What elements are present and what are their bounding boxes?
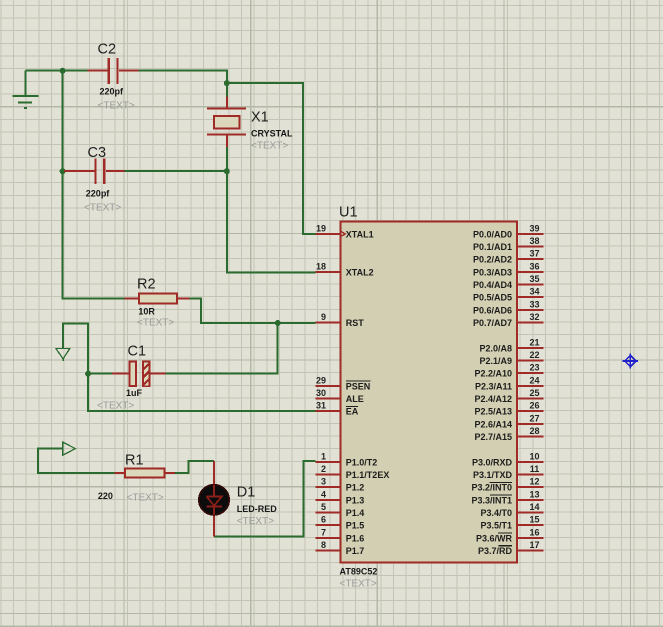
svg-text:220pf: 220pf [86,188,111,198]
svg-text:P3.5/T1: P3.5/T1 [480,521,512,531]
svg-text:P1.5: P1.5 [346,521,365,531]
svg-text:<TEXT>: <TEXT> [97,400,134,411]
svg-text:27: 27 [529,413,539,423]
svg-text:<TEXT>: <TEXT> [98,101,135,112]
clock chevron pin 19 [341,231,346,236]
pin 4 P1.3 (left) [315,489,364,505]
pin 3 P1.2 (left) [315,477,364,493]
pin 2 P1.1/T2EX (left) [315,464,389,480]
svg-text:34: 34 [529,287,539,297]
pin 34 P0.5/AD5 (right) [473,287,544,303]
origin marker [623,353,638,368]
pin 31 EA (left) [315,401,358,417]
svg-text:11: 11 [530,464,540,474]
terminal arrow right [63,442,76,455]
pin 8 P1.7 (left) [315,540,364,556]
svg-text:P3.3/INT1: P3.3/INT1 [471,495,512,505]
svg-text:35: 35 [529,274,539,284]
svg-text:RST: RST [346,318,365,328]
svg-text:P1.3: P1.3 [346,495,365,505]
pin 28 P2.7/A15 (right) [474,426,543,442]
svg-text:<TEXT>: <TEXT> [84,203,121,214]
node junction [60,168,66,174]
svg-text:P3.2/INT0: P3.2/INT0 [471,483,512,493]
svg-text:9: 9 [321,312,326,322]
wire [214,461,316,536]
svg-text:LED-RED: LED-RED [237,504,277,514]
svg-text:P3.0/RXD: P3.0/RXD [472,457,513,467]
svg-text:31: 31 [316,401,326,411]
svg-text:P3.7/RD: P3.7/RD [478,546,513,556]
svg-text:ALE: ALE [346,394,364,404]
node junction [224,80,230,86]
svg-text:<TEXT>: <TEXT> [340,578,377,589]
pin 10 P3.0/RXD (right) [472,451,544,467]
svg-text:P1.2: P1.2 [346,483,365,493]
pin 17 P3.7/RD (right) [478,540,544,556]
pin 38 P0.1/AD1 (right) [473,236,544,252]
svg-text:1uF: 1uF [126,388,143,398]
svg-text:P2.3/A11: P2.3/A11 [475,381,512,391]
pin 7 P1.6 (left) [315,527,364,543]
svg-text:8: 8 [321,540,326,550]
svg-text:<TEXT>: <TEXT> [137,318,174,329]
svg-text:21: 21 [529,337,539,347]
IC U1 AT89C52 body [341,221,517,562]
svg-text:30: 30 [316,388,326,398]
svg-text:6: 6 [321,515,326,525]
svg-text:P0.6/AD6: P0.6/AD6 [473,305,512,315]
svg-text:P0.0/AD0: P0.0/AD0 [473,229,512,239]
svg-text:P0.7/AD7: P0.7/AD7 [473,318,512,328]
pin 15 P3.5/T1 (right) [480,515,543,531]
svg-text:220: 220 [98,491,113,501]
pin 27 P2.6/A14 (right) [474,413,543,429]
svg-text:P1.6: P1.6 [346,533,365,543]
pin 16 P3.6/WR (right) [476,527,544,543]
svg-text:<TEXT>: <TEXT> [251,140,288,151]
resistor R2 [125,294,190,304]
pin 12 P3.2/INT0 (right) [471,477,543,493]
wire [227,171,316,272]
pin 13 P3.3/INT1 (right) [471,489,543,505]
svg-text:5: 5 [321,502,326,512]
wire [88,373,112,375]
diode D1 LED-RED [199,461,229,536]
svg-text:23: 23 [529,363,539,373]
svg-text:P0.2/AD2: P0.2/AD2 [473,255,512,265]
svg-text:36: 36 [529,261,539,271]
svg-text:<TEXT>: <TEXT> [237,516,274,527]
svg-text:10: 10 [529,451,539,461]
svg-text:10R: 10R [138,306,155,316]
svg-text:<TEXT>: <TEXT> [127,492,164,503]
pin 37 P0.2/AD2 (right) [473,249,544,265]
svg-text:P2.5/A13: P2.5/A13 [474,407,512,417]
svg-text:25: 25 [529,388,539,398]
svg-text:32: 32 [529,312,539,322]
svg-text:26: 26 [529,401,539,411]
svg-text:15: 15 [529,515,539,525]
svg-text:39: 39 [529,223,539,233]
wire [175,461,214,473]
node junction [224,168,230,174]
svg-text:29: 29 [316,375,326,385]
wire [88,374,315,411]
svg-text:P3.4/T0: P3.4/T0 [480,508,512,518]
svg-text:R2: R2 [137,277,156,293]
capacitor C3 [64,158,125,184]
svg-text:2: 2 [321,464,326,474]
svg-text:17: 17 [529,540,539,550]
svg-text:P2.6/A14: P2.6/A14 [474,419,512,429]
svg-text:16: 16 [529,527,539,537]
pin 1 P1.0/T2 (left) [315,451,377,467]
pin 24 P2.3/A11 (right) [475,375,544,391]
svg-text:D1: D1 [237,485,256,501]
pin 19 XTAL1 (left) [315,223,373,239]
svg-text:P2.4/A12: P2.4/A12 [474,394,512,404]
svg-text:220pf: 220pf [100,87,125,97]
svg-text:C3: C3 [88,145,107,161]
svg-text:R1: R1 [125,453,144,469]
svg-text:19: 19 [316,223,326,233]
svg-text:XTAL1: XTAL1 [346,229,374,239]
node junction [60,68,66,74]
svg-text:22: 22 [529,350,539,360]
resistor R1 [115,468,175,477]
pin 23 P2.2/A10 (right) [474,363,543,379]
wire [227,83,316,234]
svg-text:C1: C1 [128,344,147,360]
svg-text:P1.4: P1.4 [346,508,365,518]
wire [63,324,88,374]
pin 39 P0.0/AD0 (right) [473,223,544,239]
svg-text:AT89C52: AT89C52 [340,567,378,577]
svg-text:38: 38 [529,236,539,246]
svg-text:P1.1/T2EX: P1.1/T2EX [346,470,390,480]
svg-text:37: 37 [529,249,539,259]
node junction [85,371,91,377]
svg-text:P2.0/A8: P2.0/A8 [479,343,512,353]
pin 35 P0.4/AD4 (right) [473,274,544,290]
svg-text:P0.3/AD3: P0.3/AD3 [473,267,512,277]
svg-text:33: 33 [529,299,539,309]
svg-text:U1: U1 [339,205,358,221]
svg-text:P0.1/AD1: P0.1/AD1 [473,242,512,252]
pin 26 P2.5/A13 (right) [474,401,543,417]
capacitor C1 [112,362,166,387]
svg-text:EA: EA [346,407,359,417]
pin 29 PSEN (left) [315,375,370,391]
svg-text:P2.1/A9: P2.1/A9 [479,356,512,366]
pin 21 P2.0/A8 (right) [479,337,543,353]
pin 25 P2.4/A12 (right) [474,388,543,404]
svg-text:P2.7/A15: P2.7/A15 [474,432,512,442]
svg-text:C2: C2 [98,42,117,58]
wire [38,449,115,473]
svg-text:28: 28 [529,426,539,436]
svg-text:24: 24 [529,375,539,385]
terminal arrow down [56,349,70,362]
svg-text:13: 13 [529,489,539,499]
svg-text:CRYSTAL: CRYSTAL [251,128,293,138]
wire [125,170,227,172]
crystal X1 [207,96,246,147]
wire [139,71,227,97]
capacitor C2 [88,58,139,84]
pin 32 P0.7/AD7 (right) [473,312,544,328]
wire [226,147,228,171]
pin 36 P0.3/AD3 (right) [473,261,544,277]
wire [25,70,87,72]
node junction [275,320,281,326]
pin 14 P3.4/T0 (right) [480,502,543,518]
pin 33 P0.6/AD6 (right) [473,299,544,315]
svg-text:1: 1 [321,451,326,461]
pin 11 P3.1/TXD (right) [473,464,544,480]
wire [63,71,125,299]
wire [190,299,316,323]
svg-text:P0.4/AD4: P0.4/AD4 [473,280,512,290]
svg-text:P3.1/TXD: P3.1/TXD [473,470,513,480]
svg-text:P2.2/A10: P2.2/A10 [474,369,512,379]
svg-text:P3.6/WR: P3.6/WR [476,533,513,543]
pin 6 P1.5 (left) [315,515,364,531]
svg-text:P0.5/AD5: P0.5/AD5 [473,293,512,303]
svg-text:7: 7 [321,527,326,537]
svg-text:PSEN: PSEN [346,381,371,391]
pin 18 XTAL2 (left) [315,261,373,277]
pin 9 RST (left) [315,312,364,328]
svg-text:X1: X1 [251,110,269,126]
svg-text:12: 12 [529,477,539,487]
svg-text:4: 4 [321,489,326,499]
svg-text:P1.0/T2: P1.0/T2 [346,457,378,467]
pin 30 ALE (left) [315,388,363,404]
svg-text:3: 3 [321,477,326,487]
pin 5 P1.4 (left) [315,502,364,518]
ground [13,71,39,109]
svg-text:14: 14 [529,502,539,512]
svg-text:P1.7: P1.7 [346,546,365,556]
wire [166,323,278,374]
pin 22 P2.1/A9 (right) [479,350,543,366]
svg-text:18: 18 [316,261,326,271]
svg-text:XTAL2: XTAL2 [346,267,374,277]
